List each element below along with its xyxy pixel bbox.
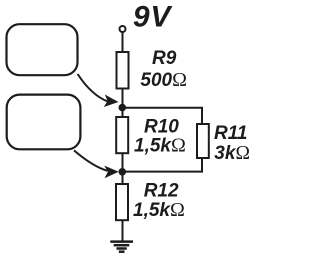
svg-text:1,5kΩ: 1,5kΩ — [133, 199, 185, 221]
svg-text:R11: R11 — [214, 123, 247, 144]
svg-text:3kΩ: 3kΩ — [214, 143, 250, 164]
svg-text:9V: 9V — [133, 0, 173, 33]
svg-text:500Ω: 500Ω — [140, 69, 187, 91]
svg-text:1,5kΩ: 1,5kΩ — [134, 135, 186, 157]
svg-text:R9: R9 — [152, 48, 177, 69]
